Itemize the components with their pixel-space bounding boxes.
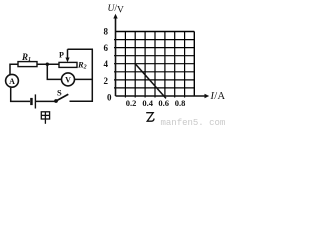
svg-text:manfen5. com: manfen5. com [161, 118, 226, 128]
svg-text:I/A: I/A [210, 91, 226, 102]
svg-text:0.2: 0.2 [126, 98, 137, 108]
wire: junction down to voltmeter row [47, 64, 61, 79]
switch S [54, 94, 68, 103]
svg-text:8: 8 [104, 27, 109, 37]
svg-text:R2: R2 [77, 60, 87, 71]
wire: below ammeter down to bottom row [11, 88, 30, 102]
junction node between R1 and R2 [46, 62, 49, 65]
wire: R1 to junction to R2 [37, 63, 59, 65]
label 乙 (drawn glyph) [146, 113, 154, 122]
battery [30, 94, 35, 108]
label 甲 (drawn glyph) [41, 112, 49, 124]
svg-text:4: 4 [104, 59, 109, 69]
svg-text:P: P [59, 51, 64, 60]
x-axis I [116, 94, 210, 98]
wire: voltmeter to right column [75, 78, 93, 80]
resistor R1 [18, 62, 37, 67]
svg-text:A: A [9, 77, 15, 86]
U-I line [135, 64, 166, 99]
wire: battery to switch [36, 100, 55, 102]
wire: left top from R1 to left column [10, 64, 18, 75]
svg-text:6: 6 [104, 43, 109, 53]
svg-text:0.6: 0.6 [158, 98, 169, 108]
slider P arrow of rheostat [65, 49, 69, 62]
svg-text:0.8: 0.8 [175, 98, 186, 108]
wire: top wire from slider P to right column [68, 48, 94, 50]
svg-text:0: 0 [107, 93, 112, 103]
grid [114, 32, 194, 98]
svg-text:R1: R1 [21, 52, 31, 63]
rheostat R2 [59, 62, 77, 67]
svg-text:U/V: U/V [108, 4, 125, 16]
svg-text:0.4: 0.4 [142, 98, 153, 108]
svg-text:V: V [65, 76, 71, 85]
y-axis U [113, 14, 117, 96]
ammeter A [6, 74, 19, 87]
voltmeter V [62, 73, 75, 86]
wire: switch to bottom-right corner and up [70, 49, 93, 101]
svg-text:S: S [57, 87, 62, 97]
svg-text:2: 2 [104, 76, 109, 86]
